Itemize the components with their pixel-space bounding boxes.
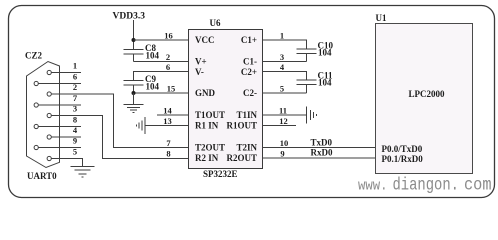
wire CZ2 pin 8 stub [38, 126, 81, 128]
svg-text:T2IN: T2IN [236, 143, 257, 153]
ground below C9 [124, 93, 144, 113]
wire CZ2 pin 4 stub [51, 136, 81, 138]
svg-text:14: 14 [163, 106, 172, 116]
svg-text:104: 104 [318, 47, 332, 57]
svg-text:P0.1/RxD0: P0.1/RxD0 [382, 154, 424, 164]
wire U6 pin 14 stub [157, 114, 189, 116]
wire CZ2 pin 7 stub [38, 104, 81, 106]
U6 right pin names [226, 35, 257, 163]
ground rotated at U6 pin 13 [137, 117, 146, 134]
wire U6 pin 9 to U1 RxD0 [262, 157, 376, 159]
svg-text:www.diangon.com: www.diangon.com [358, 176, 492, 196]
wire CZ2 pin 3 to U6 R2 IN [51, 116, 188, 159]
svg-text:VDD3.3: VDD3.3 [113, 12, 146, 22]
svg-text:9: 9 [280, 149, 284, 159]
svg-text:RxD0: RxD0 [311, 148, 333, 158]
wire CZ2 pin 5 to ground [51, 159, 82, 167]
svg-text:5: 5 [73, 147, 77, 157]
capacitor C11 [297, 80, 317, 93]
svg-text:UART0: UART0 [27, 171, 57, 181]
border frame [9, 6, 495, 198]
svg-text:C1+: C1+ [241, 35, 257, 45]
svg-text:10: 10 [280, 138, 289, 148]
wire U6 pin 3 [262, 61, 307, 63]
wire VDD3.3 vertical rail [133, 20, 135, 50]
svg-text:1: 1 [73, 61, 77, 71]
svg-text:CZ2: CZ2 [25, 51, 43, 61]
wire U6 pin 16 [134, 39, 190, 41]
wire CZ2 pin 9 stub [38, 147, 81, 149]
svg-text:3: 3 [73, 104, 77, 114]
svg-text:13: 13 [163, 116, 172, 126]
svg-text:5: 5 [280, 84, 284, 94]
svg-text:11: 11 [279, 106, 287, 116]
svg-text:LPC2000: LPC2000 [409, 89, 446, 99]
wire U6 pin 6 to C9 [134, 72, 190, 81]
wire U6 pin 1 to C10 [262, 40, 307, 49]
wire U6 pin 4 to C11 [262, 72, 307, 81]
svg-text:C1-: C1- [243, 57, 257, 67]
connector CZ2 pin circles right column [47, 70, 51, 160]
wire CZ2 pin 6 stub [38, 83, 81, 85]
svg-text:U6: U6 [210, 18, 221, 28]
svg-text:12: 12 [279, 116, 288, 126]
svg-text:T1OUT: T1OUT [195, 110, 225, 120]
svg-text:V-: V- [195, 67, 204, 77]
svg-text:2: 2 [73, 82, 77, 92]
svg-text:C2+: C2+ [241, 67, 257, 77]
ground at CZ2 pin 5 [71, 167, 95, 178]
svg-text:P0.0/TxD0: P0.0/TxD0 [382, 144, 423, 154]
U6 pin number labels left [163, 31, 175, 159]
ground rotated at U6 pin 11 [307, 107, 317, 124]
svg-text:8: 8 [166, 149, 170, 159]
wire CZ2 pin 2 to U6 T2OUT [51, 94, 188, 148]
connector CZ2 pin circles left column [34, 81, 38, 149]
svg-text:16: 16 [164, 31, 173, 41]
svg-text:2: 2 [166, 52, 170, 62]
svg-text:GND: GND [195, 88, 216, 98]
svg-text:VCC: VCC [195, 35, 215, 45]
svg-text:C2-: C2- [243, 88, 257, 98]
svg-text:R1 IN: R1 IN [195, 121, 219, 131]
svg-text:104: 104 [318, 78, 332, 88]
svg-text:3: 3 [280, 52, 284, 62]
svg-text:R2OUT: R2OUT [226, 153, 257, 163]
wire U6 pin 11 [262, 114, 307, 116]
svg-text:104: 104 [146, 51, 160, 61]
svg-text:15: 15 [167, 84, 176, 94]
connector CZ2 outline [27, 62, 60, 168]
wire U6 pin 2 [134, 61, 190, 63]
svg-text:R1OUT: R1OUT [226, 121, 257, 131]
wire CZ2 pin 1 stub [51, 72, 81, 74]
svg-text:6: 6 [73, 72, 77, 82]
svg-text:U1: U1 [376, 13, 387, 23]
svg-text:T2OUT: T2OUT [195, 143, 225, 153]
capacitor C9 [124, 81, 144, 94]
wire U6 pin 12 stub [262, 125, 296, 127]
junction dot VDD rail / pin16 wire [132, 38, 136, 42]
wire U6 pin 10 to U1 TxD0 [262, 147, 376, 149]
wire U6 pin 5 [262, 92, 307, 94]
U6 left pin names [195, 35, 225, 163]
svg-text:9: 9 [73, 136, 77, 146]
wire U6 pin 13 [146, 125, 190, 127]
junction dot C9 / pin15 wire [132, 91, 136, 95]
svg-text:1: 1 [280, 31, 284, 41]
svg-text:8: 8 [73, 115, 77, 125]
op chip U6 body [189, 30, 263, 169]
svg-text:TxD0: TxD0 [311, 138, 333, 148]
chip U1 body [376, 24, 473, 174]
capacitor C10 [297, 49, 317, 62]
capacitor C8 [124, 50, 144, 62]
wire U6 pin 15 [134, 92, 190, 94]
svg-text:6: 6 [166, 62, 170, 72]
CZ2 pin number labels [73, 61, 78, 157]
svg-text:104: 104 [146, 82, 160, 92]
svg-text:R2 IN: R2 IN [195, 153, 219, 163]
svg-text:V+: V+ [195, 57, 207, 67]
U6 pin number labels right [279, 31, 288, 159]
svg-text:T1IN: T1IN [236, 110, 257, 120]
svg-text:SP3232E: SP3232E [203, 169, 238, 179]
